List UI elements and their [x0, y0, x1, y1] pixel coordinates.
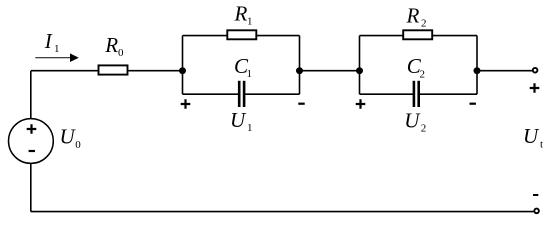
wire: node B to node C: [300, 70, 360, 72]
polarity plus for U2: [356, 99, 366, 109]
svg-text:2: 2: [421, 18, 427, 30]
svg-text:0: 0: [75, 139, 81, 151]
node B junction dot: [296, 67, 303, 74]
node A junction dot: [179, 67, 186, 74]
resistor R1 body: [227, 30, 256, 39]
svg-text:1: 1: [247, 15, 253, 27]
current arrow I1: [35, 53, 79, 62]
wire: left vertical from source circle to bottom bus: [30, 163, 32, 212]
capacitor C1 plates: [239, 81, 244, 107]
node C junction dot: [356, 67, 363, 74]
label U1: [230, 108, 253, 134]
svg-text:I: I: [44, 29, 53, 53]
polarity plus for U1: [181, 99, 191, 109]
label Ut: [523, 124, 543, 151]
polarity minus for output: [533, 194, 538, 196]
wire: block1 right vertical x=299.5: [299, 36, 301, 95]
svg-text:2: 2: [420, 68, 426, 80]
svg-text:t: t: [540, 139, 543, 151]
svg-text:U: U: [523, 124, 540, 148]
wire: block1 bottom branch right of C1: [245, 93, 299, 95]
label R0: [104, 33, 124, 59]
polarity plus for output: [530, 83, 540, 93]
svg-text:R: R: [104, 33, 118, 57]
label C2: [407, 54, 425, 80]
output terminal bottom (open circle): [534, 209, 539, 214]
wire: bottom return bus y=211: [31, 211, 534, 213]
polarity minus for U1: [298, 103, 304, 105]
voltage source U0 circle: [9, 119, 54, 164]
svg-text:0: 0: [118, 47, 124, 59]
svg-text:R: R: [234, 2, 248, 26]
label I1: [44, 29, 60, 55]
wire: block2 left vertical x=359.5: [359, 36, 361, 95]
wire: block2 right vertical x=477: [476, 36, 478, 95]
label U0: [60, 125, 82, 151]
wire: block1 top branch y=35: [183, 35, 300, 37]
capacitor C2 plates: [414, 81, 419, 107]
label R2: [406, 4, 427, 30]
voltage source minus sign: [29, 150, 35, 152]
svg-text:U: U: [230, 108, 247, 132]
label C1: [234, 54, 252, 80]
wire: node D to output terminal: [477, 70, 533, 72]
resistor R2 body: [403, 30, 432, 39]
svg-text:1: 1: [54, 43, 60, 55]
wire: block2 bottom branch left of C2: [360, 93, 413, 95]
wire: block2 top branch y=35: [360, 35, 478, 37]
svg-text:R: R: [406, 4, 420, 28]
svg-text:U: U: [60, 125, 77, 149]
wire: block1 bottom branch left of C1: [183, 93, 239, 95]
voltage source plus sign: [27, 124, 37, 134]
label R1: [234, 2, 253, 28]
label U2: [404, 108, 426, 134]
wire: block2 bottom branch right of C2: [420, 93, 477, 95]
svg-text:1: 1: [247, 68, 253, 80]
wire: block1 left vertical x=183: [182, 36, 184, 95]
polarity minus for U2: [470, 103, 476, 105]
wire: R0 to node A: [127, 70, 183, 72]
resistor R0 body: [99, 65, 128, 74]
svg-text:U: U: [404, 108, 421, 132]
wire: left vertical from top bus down to source circle: [30, 71, 32, 119]
wire: top main bus y=70 from source to R0: [31, 70, 99, 72]
node D junction dot: [474, 67, 481, 74]
svg-text:2: 2: [421, 122, 427, 134]
svg-text:1: 1: [247, 122, 253, 134]
output terminal top (open circle): [533, 68, 538, 73]
